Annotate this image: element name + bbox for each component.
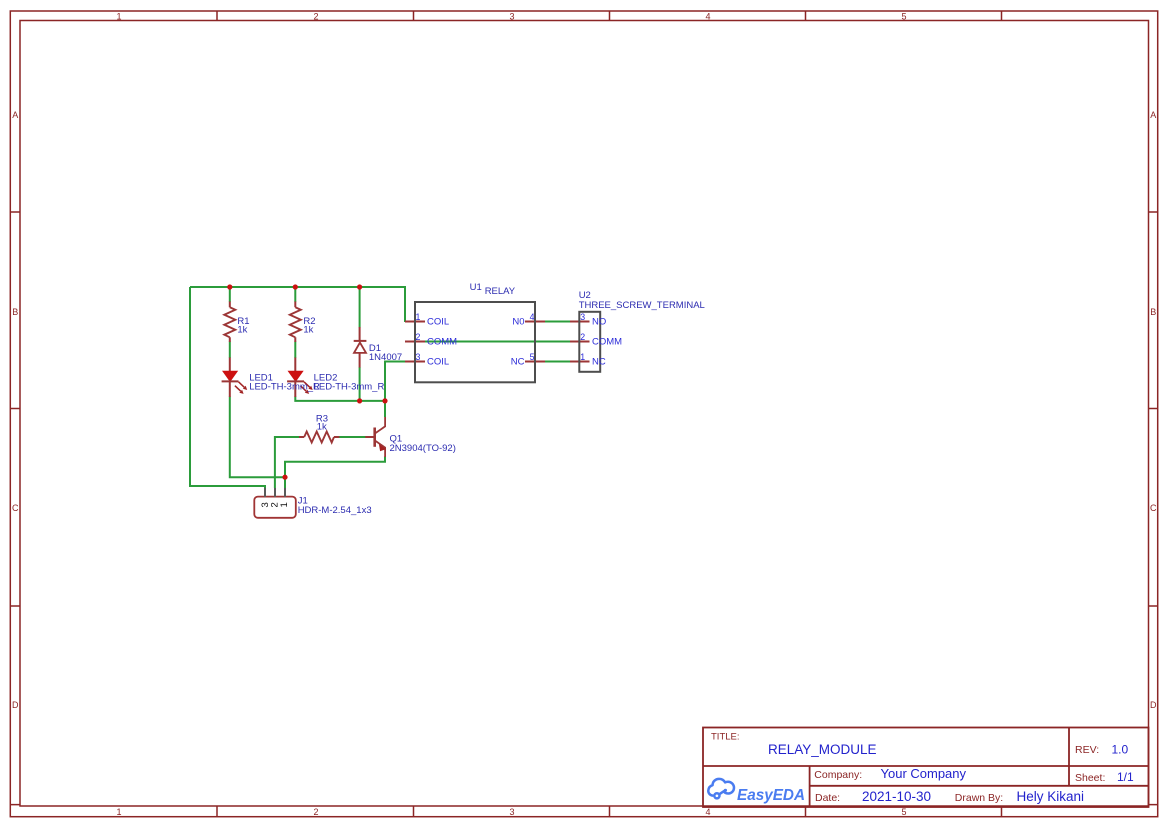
svg-text:1: 1 bbox=[416, 312, 421, 322]
wires (green) bbox=[190, 287, 570, 488]
resistor R2 zigzag bbox=[290, 307, 301, 337]
svg-text:2021-10-30: 2021-10-30 bbox=[862, 789, 931, 804]
svg-text:B: B bbox=[1150, 307, 1156, 317]
wire: R2 top lead stub bbox=[294, 287, 296, 302]
svg-text:COMM: COMM bbox=[427, 336, 457, 347]
J1 header bbox=[254, 488, 295, 518]
svg-text:Date:: Date: bbox=[815, 792, 840, 804]
svg-text:2: 2 bbox=[416, 332, 421, 342]
component pin stubs (dark red) bbox=[230, 302, 590, 438]
svg-text:1k: 1k bbox=[303, 324, 313, 335]
svg-text:2: 2 bbox=[580, 332, 585, 342]
svg-text:RELAY: RELAY bbox=[485, 286, 516, 297]
svg-text:3: 3 bbox=[580, 312, 585, 322]
svg-text:B: B bbox=[12, 307, 18, 317]
svg-text:5: 5 bbox=[901, 11, 906, 21]
svg-text:Sheet:: Sheet: bbox=[1075, 772, 1105, 784]
svg-text:A: A bbox=[12, 110, 18, 120]
svg-text:Drawn By:: Drawn By: bbox=[955, 792, 1003, 804]
wire: U1 NO to U2 pin3 bbox=[545, 321, 571, 323]
svg-text:3: 3 bbox=[509, 11, 514, 21]
svg-text:COIL: COIL bbox=[427, 356, 449, 367]
wire: D1 top bbox=[359, 287, 361, 328]
svg-text:Hely Kikani: Hely Kikani bbox=[1017, 789, 1085, 804]
U1 pins left 1,2,3 bbox=[405, 322, 425, 362]
svg-text:EasyEDA: EasyEDA bbox=[737, 787, 805, 804]
svg-text:REV:: REV: bbox=[1075, 744, 1099, 756]
LED2 bbox=[287, 371, 313, 394]
wire: R3 left to J1 pin2 bbox=[275, 437, 300, 488]
svg-text:N0: N0 bbox=[512, 316, 524, 327]
svg-text:NC: NC bbox=[511, 356, 525, 367]
svg-text:5: 5 bbox=[530, 352, 535, 362]
svg-text:1k: 1k bbox=[317, 422, 327, 433]
svg-text:COMM: COMM bbox=[592, 336, 622, 347]
svg-text:Company:: Company: bbox=[814, 769, 862, 781]
svg-text:A: A bbox=[1150, 110, 1156, 120]
svg-text:3: 3 bbox=[416, 352, 421, 362]
LED1 bbox=[222, 371, 248, 394]
resistor R1 zigzag bbox=[224, 307, 235, 337]
wire: LED1 to J1 pin1 junction bbox=[230, 397, 285, 478]
svg-text:Your Company: Your Company bbox=[881, 766, 967, 781]
svg-text:4: 4 bbox=[530, 312, 535, 322]
resistor R3 zigzag bbox=[304, 432, 334, 443]
LED2 leads bbox=[294, 358, 296, 398]
wire over pin overlap (olive) at U1 pin2 bbox=[405, 341, 416, 343]
svg-text:LED-TH-3mm_R: LED-TH-3mm_R bbox=[314, 381, 385, 392]
junction D1 top rail bbox=[357, 284, 362, 289]
R3 leads bbox=[299, 436, 339, 438]
wire: bottom rail to Q1 collector bbox=[384, 401, 386, 417]
wire: R1 to LED1 bbox=[229, 342, 231, 359]
svg-text:COIL: COIL bbox=[427, 316, 449, 327]
svg-text:1/1: 1/1 bbox=[1117, 770, 1134, 784]
svg-text:HDR-M-2.54_1x3: HDR-M-2.54_1x3 bbox=[298, 505, 372, 516]
EasyEDA logo cloud bbox=[708, 779, 734, 799]
svg-text:2: 2 bbox=[313, 807, 318, 817]
wire: R3 right to Q1 base bbox=[339, 436, 366, 438]
svg-text:1: 1 bbox=[580, 352, 585, 362]
wire: R2 to LED2 bbox=[294, 342, 296, 359]
svg-text:4: 4 bbox=[705, 807, 710, 817]
LED1 leads bbox=[229, 358, 231, 398]
junction collector node bbox=[382, 398, 387, 403]
blue labels bbox=[237, 282, 704, 516]
svg-text:C: C bbox=[12, 503, 19, 513]
svg-text:NO: NO bbox=[592, 316, 606, 327]
svg-text:1.0: 1.0 bbox=[1112, 743, 1129, 757]
junction D1 bottom rail bbox=[357, 398, 362, 403]
U1 relay box bbox=[415, 302, 535, 382]
right ruler ticks bbox=[1149, 212, 1158, 805]
svg-text:C: C bbox=[1150, 503, 1157, 513]
svg-text:LED-TH-3mm_R: LED-TH-3mm_R bbox=[249, 381, 320, 392]
top ruler ticks bbox=[217, 11, 1002, 21]
wire: bottom rail to U1 pin3 bbox=[385, 362, 405, 401]
svg-text:2: 2 bbox=[313, 11, 318, 21]
diode D1 bbox=[354, 341, 367, 353]
wire: R1 top lead stub bbox=[229, 287, 231, 302]
U1 pin names bbox=[427, 316, 622, 367]
svg-text:NC: NC bbox=[592, 356, 606, 367]
company/date row divider bbox=[810, 785, 1149, 787]
svg-text:D: D bbox=[12, 700, 19, 710]
wire: top rail to U1 pin1 bbox=[190, 287, 405, 322]
svg-text:1: 1 bbox=[116, 807, 121, 817]
junction R2 top rail bbox=[293, 284, 298, 289]
rev column divider bbox=[1068, 728, 1070, 786]
transistor Q1 bbox=[365, 417, 386, 457]
U2 pins 3,2,1 bbox=[570, 322, 590, 362]
junction R1 top rail bbox=[227, 284, 232, 289]
title block outer box bbox=[703, 728, 1149, 808]
wire: D1 bottom bbox=[359, 367, 361, 401]
wire: Q1 emitter to J1 pin1 bbox=[285, 457, 385, 489]
svg-text:2N3904(TO-92): 2N3904(TO-92) bbox=[390, 443, 456, 454]
svg-text:1N4007: 1N4007 bbox=[369, 352, 402, 363]
wire: U1 NC to U2 pin1 bbox=[545, 361, 571, 363]
svg-text:D: D bbox=[1150, 700, 1157, 710]
U1 pins right 4,5 bbox=[525, 322, 545, 362]
wire: LED2 to bottom rail bbox=[295, 397, 385, 401]
svg-text:4: 4 bbox=[705, 11, 710, 21]
R1 leads bbox=[229, 302, 231, 343]
junction emitter-LED1 node bbox=[282, 475, 287, 480]
svg-text:5: 5 bbox=[901, 807, 906, 817]
svg-text:TITLE:: TITLE: bbox=[711, 732, 740, 743]
CIRCUIT bbox=[190, 282, 705, 518]
wire: left rail to J1 pin3 bbox=[190, 287, 265, 488]
svg-text:3: 3 bbox=[509, 807, 514, 817]
svg-text:1: 1 bbox=[279, 502, 290, 507]
left ruler ticks bbox=[10, 212, 20, 805]
svg-text:THREE_SCREW_TERMINAL: THREE_SCREW_TERMINAL bbox=[579, 300, 705, 311]
U1 pin numbers bbox=[416, 312, 586, 362]
svg-text:U1: U1 bbox=[470, 282, 482, 293]
bottom ruler ticks bbox=[217, 806, 1002, 817]
wire: COMM U1 pin2 to U2 pin2 bbox=[406, 341, 571, 343]
TITLE BLOCK bbox=[703, 728, 1149, 808]
svg-text:1: 1 bbox=[116, 11, 121, 21]
R2 leads bbox=[294, 302, 296, 343]
U2 terminal box bbox=[579, 312, 600, 372]
D1 leads bbox=[359, 327, 361, 368]
svg-text:RELAY_MODULE: RELAY_MODULE bbox=[768, 742, 877, 757]
logo cell divider bbox=[809, 766, 811, 807]
svg-text:1k: 1k bbox=[237, 324, 247, 335]
title row divider bbox=[703, 765, 1149, 767]
